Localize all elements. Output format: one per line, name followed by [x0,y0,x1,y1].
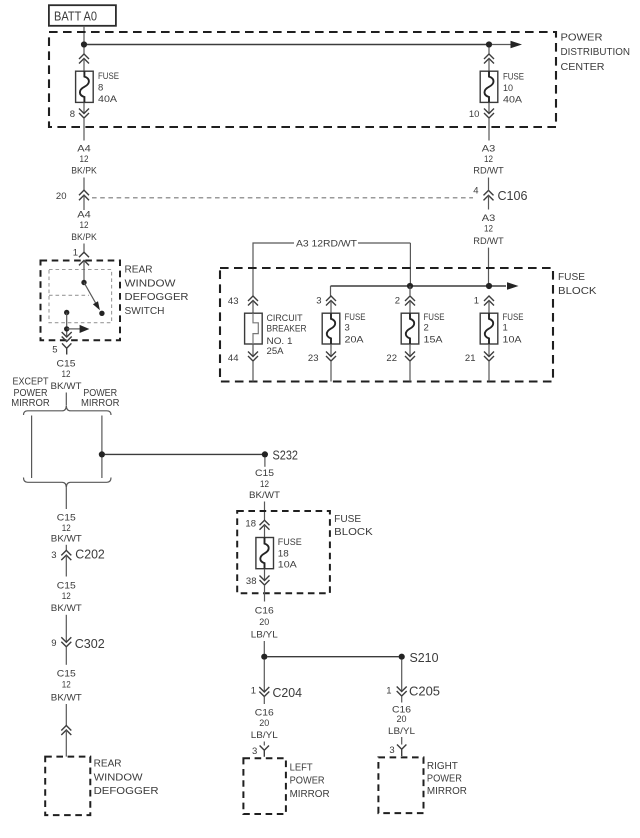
connector C205 chevrons [397,687,407,697]
svg-text:MIRROR: MIRROR [427,786,467,797]
wire merged branch down [65,488,67,509]
svg-text:BLOCK: BLOCK [558,286,597,297]
svg-text:A4: A4 [77,210,91,221]
switch output contact node [64,310,69,315]
wire label C15 12 BK/WT [51,669,82,704]
wire to left power mirror [263,742,265,746]
svg-text:BK/WT: BK/WT [51,534,82,545]
label FUSE BLOCK [334,514,373,538]
wire into fuse 1 [488,301,490,314]
svg-text:38: 38 [246,576,257,587]
wire fuse 2 output [409,361,411,382]
wire to C106 [83,178,85,191]
svg-text:15A: 15A [424,334,444,345]
svg-text:EXCEPT: EXCEPT [13,377,49,388]
wire below fuse 18 [264,569,266,581]
svg-text:FUSE: FUSE [424,312,445,323]
wire into fuse block [264,502,266,521]
fuse block dashed box [220,268,553,382]
svg-text:12: 12 [260,479,269,490]
wire to right power mirror [401,737,403,745]
svg-text:SWITCH: SWITCH [125,306,165,317]
svg-text:40A: 40A [98,94,118,105]
svg-text:18: 18 [245,518,256,529]
wire A3 down to fuse block node [488,248,490,284]
right power mirror dashed box [378,757,423,813]
wire into fuse 8 [83,59,85,72]
svg-text:RD/WT: RD/WT [473,166,504,177]
wire below C204 [263,697,265,705]
svg-text:20: 20 [259,718,269,729]
fuse F1 element [480,313,498,344]
wire to C302 [65,615,67,643]
svg-text:FUSE: FUSE [558,272,585,283]
value label FUSE 10 40A [503,72,524,106]
connector chevrons below fuse 2 [405,352,415,362]
wire from fuse 10 down [488,102,490,113]
svg-text:C15: C15 [57,513,76,524]
wire from S210 down to C205 [401,660,403,692]
wire leaving fuse block [264,585,266,602]
arrow bus continues to other circuits [507,282,519,290]
wire node to fuse 8 connector [83,47,85,54]
wire below C202 [65,555,67,576]
svg-text:MIRROR: MIRROR [81,398,120,409]
svg-text:23: 23 [308,353,319,364]
value label FUSE 1 10A [503,312,524,345]
svg-text:1: 1 [503,322,508,333]
wire from S232 down [264,457,266,467]
svg-text:C106: C106 [498,189,528,203]
svg-text:A3: A3 [482,213,496,224]
wire to C106 right [488,178,490,191]
connector Y at left power mirror [260,746,269,757]
svg-text:A4: A4 [77,144,91,155]
wire to switch pin 5 [66,332,68,337]
svg-text:MIRROR: MIRROR [11,398,50,409]
node splice tap (junction dot) [99,451,105,457]
svg-text:FUSE: FUSE [345,312,366,323]
node splice S210 (junction dot) [399,654,405,660]
connector chevrons below fuse 8 [79,109,89,119]
wire switch output [66,313,68,329]
connector chevrons above fuse 1 [484,296,494,306]
switch wiper arrow [67,325,90,333]
rear window defogger switch dashed box [41,261,121,341]
wire label C16 20 LB/YL [251,708,278,742]
circuit breaker no.1 element [245,313,263,344]
wire into circuit breaker [252,301,254,314]
wire into fuse 10 [488,59,490,72]
label POWER DISTRIBUTION CENTER [561,33,631,73]
svg-text:20: 20 [259,617,269,628]
wire to defogger switch [83,244,85,253]
option label EXCEPT POWER MIRROR [11,377,50,409]
wire label A3 12 RD/WT [473,144,504,177]
svg-text:4: 4 [473,186,478,197]
svg-text:REAR: REAR [125,265,153,276]
svg-text:3: 3 [316,295,321,306]
svg-text:5: 5 [52,345,57,356]
wire except-power-mirror branch [31,416,33,479]
switch inner housing dashed outline [49,270,112,323]
wire fuse 3 output [330,361,332,382]
wire node to fuse 10 connector [488,47,490,54]
wire stub into split [65,393,67,406]
svg-text:FUSE: FUSE [503,72,524,83]
left power mirror dashed box [243,758,286,814]
wire fuse block feed bus [331,285,507,287]
wire arrow continuing to other circuits [492,41,522,49]
svg-text:12: 12 [62,591,71,602]
svg-text:LB/YL: LB/YL [251,730,278,741]
connector Y at right power mirror [397,745,406,757]
fuse F8 element [76,71,94,102]
connector C202 chevrons [61,550,71,560]
svg-text:2: 2 [424,322,429,333]
svg-text:BK/WT: BK/WT [51,381,82,392]
label REAR WINDOW DEFOGGER [94,758,159,797]
svg-text:RD/WT: RD/WT [473,236,504,247]
svg-text:9: 9 [51,638,56,649]
value label FUSE 3 20A [345,312,366,345]
svg-text:C15: C15 [57,581,76,592]
wire below fuse 1 [488,344,490,357]
connector chevrons at switch pin 5 [62,332,72,342]
svg-text:WINDOW: WINDOW [94,773,144,784]
label FUSE BLOCK [558,272,597,297]
power distribution center dashed box [49,32,556,127]
connector chevrons below fuse 3 [326,352,336,362]
svg-text:C204: C204 [273,686,303,700]
svg-text:C16: C16 [255,606,274,617]
svg-text:FUSE: FUSE [98,71,119,82]
wire to splice S210 [267,656,399,658]
wire into fuse 18 [264,525,266,538]
svg-text:3: 3 [345,322,350,333]
wire power-mirror branch [101,416,103,479]
svg-text:POWER: POWER [561,33,603,44]
connector chevrons above fuse 2 [405,296,415,306]
wire label C15 12 BK/WT [51,581,82,614]
wire into switch contact [83,260,85,280]
value label FUSE 2 15A [424,312,445,345]
svg-text:20: 20 [397,714,407,725]
svg-text:12: 12 [80,154,89,165]
svg-text:22: 22 [386,353,397,364]
rear window defogger dashed box [45,757,90,816]
label LEFT POWER MIRROR [290,763,330,801]
svg-text:A3: A3 [482,144,496,155]
connector chevrons below fuse 10 [484,109,494,119]
svg-text:BK/WT: BK/WT [249,490,280,501]
svg-text:C15: C15 [57,359,76,370]
svg-text:BK/WT: BK/WT [51,693,82,704]
svg-text:40A: 40A [503,95,523,106]
svg-text:DEFOGGER: DEFOGGER [125,292,189,303]
svg-text:S232: S232 [273,449,299,463]
svg-text:LB/YL: LB/YL [251,630,278,641]
svg-text:DEFOGGER: DEFOGGER [94,786,159,797]
svg-text:DISTRIBUTION: DISTRIBUTION [561,47,631,58]
wire to splice S232 [105,453,262,455]
connector chevrons below fuse 1 [484,352,494,362]
svg-text:12: 12 [484,224,493,235]
node at fuse 10 tap (junction dot) [486,41,492,47]
svg-text:LB/YL: LB/YL [388,726,415,737]
switch common contact node [81,280,86,285]
wire branch down to fuse 2 node [409,243,411,283]
svg-text:12: 12 [80,220,89,231]
wire below C205 [401,696,403,703]
node left mirror tap (junction dot) [261,654,267,660]
fuse F2 element [401,313,419,344]
option label POWER MIRROR [81,388,120,409]
wire to C204 [263,660,265,692]
svg-text:C16: C16 [255,708,274,719]
connector chevrons above fuse 10 [484,54,494,64]
connector Y below switch [62,343,71,354]
wire fuse 1 output [488,361,490,382]
harness split brace bottom [24,478,112,488]
wire into fuse 2 [409,286,411,313]
connector C106 chevrons left [79,190,89,200]
svg-text:BLOCK: BLOCK [334,527,373,538]
svg-text:RIGHT: RIGHT [427,761,458,772]
svg-text:21: 21 [465,353,476,364]
wire from BATT A0 down to node [83,26,85,42]
wire label C15 12 BK/WT [51,513,82,545]
svg-text:12: 12 [62,680,71,691]
wire leaving PDC on A4 [83,118,85,141]
wire into defogger grid [65,730,67,757]
svg-text:43: 43 [228,296,239,307]
connector chevrons at defogger grid [61,726,71,736]
wire from fuse 8 down [83,102,85,113]
svg-text:LEFT: LEFT [290,763,313,774]
node fuse 1 tap (junction dot) [486,283,492,289]
wire label C15 12 BK/WT [51,359,82,392]
svg-text:3: 3 [252,746,257,757]
svg-text:BK/PK: BK/PK [71,166,97,177]
connector C106 dashed body line [92,197,473,199]
wire below C106 left [83,195,85,210]
connector chevrons at switch pin 1 [79,252,89,265]
svg-text:12: 12 [62,523,71,534]
svg-text:3: 3 [389,745,394,756]
svg-text:WINDOW: WINDOW [125,278,177,289]
wire corner to fuse 3 [330,286,332,296]
wire below circuit breaker [252,344,254,357]
svg-text:FUSE: FUSE [334,514,361,525]
wire label C16 20 LB/YL [388,705,415,737]
wire down to splice node [263,641,265,654]
switch throw contact node [99,311,104,316]
svg-text:1: 1 [73,248,78,259]
harness split brace top [24,405,112,415]
wire into fuse 3 [330,301,332,314]
svg-text:A3 12RD/WT: A3 12RD/WT [296,239,357,250]
connector chevrons below fuse 18 [260,576,270,586]
connector chevrons above fuse 8 [79,54,89,64]
wire label C16 20 LB/YL [251,606,278,641]
wire circuit breaker output [252,361,254,382]
svg-text:C202: C202 [75,548,105,562]
svg-text:CENTER: CENTER [561,62,605,73]
value label FUSE 18 10A [278,537,302,570]
svg-text:REAR: REAR [94,758,122,769]
svg-text:S210: S210 [410,651,439,665]
svg-text:10A: 10A [503,334,523,345]
svg-text:10A: 10A [278,560,298,571]
svg-text:POWER: POWER [427,774,462,785]
svg-text:FUSE: FUSE [278,537,302,548]
wire label A4 12 BK/PK [71,144,97,177]
svg-text:C15: C15 [255,468,274,479]
label REAR WINDOW DEFOGGER SWITCH [125,265,189,317]
svg-text:POWER: POWER [290,776,325,787]
svg-text:20A: 20A [345,334,365,345]
svg-text:1: 1 [474,295,479,306]
wire below fuse 2 [409,344,411,357]
svg-text:2: 2 [395,295,400,306]
wire label A4 12 BK/PK below C106 [71,210,97,243]
wire to rear window defogger [65,704,67,726]
svg-text:BK/WT: BK/WT [51,603,82,614]
fuse F10 element [480,71,498,102]
switch movable blade with arrow [84,283,100,311]
value label FUSE 8 40A [98,71,119,105]
connector chevrons above circuit breaker [248,296,258,306]
svg-text:BK/PK: BK/PK [71,232,97,243]
wire bus B(+) horizontal [87,44,486,46]
svg-text:C302: C302 [75,637,105,651]
svg-text:CIRCUIT: CIRCUIT [267,313,303,324]
svg-text:FUSE: FUSE [503,312,524,323]
wire branch A3 12RD/WT to circuit breaker [253,243,410,296]
svg-text:3: 3 [51,550,56,561]
connector C204 chevrons [259,687,269,697]
svg-text:C205: C205 [409,684,440,698]
node splice S232 (junction dot) [262,451,268,457]
svg-text:MIRROR: MIRROR [290,789,330,800]
connector C106 chevrons right [484,190,494,200]
svg-text:18: 18 [278,549,289,560]
svg-text:C15: C15 [57,669,76,680]
fuse F18 element [256,538,274,569]
svg-text:12: 12 [484,154,493,165]
connector chevrons above fuse 3 [326,296,336,306]
wire to C202 [65,545,67,551]
svg-text:44: 44 [228,353,239,364]
svg-text:BREAKER: BREAKER [267,324,307,335]
node at battery feed (junction dot) [81,41,87,47]
svg-text:8: 8 [70,109,75,120]
wire below C106 right [488,195,490,209]
node fuse 2 tap (junction dot) [407,283,413,289]
wire label A3 12 RD/WT below C106 [473,213,504,247]
svg-text:BATT A0: BATT A0 [54,9,97,23]
connector C302 chevrons [61,637,71,647]
connector chevrons below circuit breaker [248,352,258,362]
connector chevrons above fuse 18 [260,520,270,530]
svg-text:20: 20 [56,191,67,202]
wire below fuse 3 [330,344,332,357]
svg-text:8: 8 [98,83,103,94]
svg-text:1: 1 [251,686,256,697]
svg-text:1: 1 [386,685,391,696]
svg-text:25A: 25A [267,346,285,357]
wire label C15 12 BK/WT [249,468,280,501]
svg-text:10: 10 [503,83,513,94]
label RIGHT POWER MIRROR [427,761,467,797]
fuse block 2 dashed box [237,511,330,593]
value label CIRCUIT BREAKER NO. 1 25A [267,313,307,357]
wire below C302 [65,647,67,665]
svg-text:10: 10 [469,109,480,120]
fuse F3 element [322,313,340,344]
switch wiper node [64,326,69,331]
svg-text:12: 12 [62,369,71,380]
wire leaving PDC on A3 [488,118,490,141]
battery feed box BATT A0 [49,5,116,26]
